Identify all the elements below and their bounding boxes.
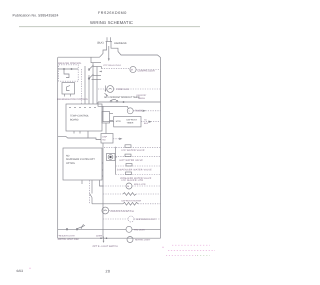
svg-text:REFRIG LIGHT: REFRIG LIGHT (135, 239, 151, 242)
junction dot defrost (123, 101, 125, 103)
defrost timer switch line (98, 101, 161, 103)
dispenser light lamp (128, 216, 134, 222)
defrost feed arrow glyph (105, 93, 108, 95)
compressor motor circle (130, 66, 136, 72)
ice maker motor circle (126, 183, 132, 189)
adaptive defrost control box (114, 117, 141, 127)
control board box (66, 104, 102, 131)
svg-text:DISP: DISP (102, 136, 107, 139)
line cord plug (106, 37, 112, 46)
wire left bus to aux switch (58, 136, 88, 138)
ground lead with arrow (108, 46, 110, 59)
condenser fan motor circle (107, 86, 114, 93)
freezer control dashed box (59, 65, 78, 81)
svg-text:DEFROST: DEFROST (127, 118, 138, 121)
note box (63, 148, 102, 180)
artifact pink dashes bottom right (29, 245, 215, 269)
ice maker row step (100, 180, 104, 186)
svg-text:FREEZER CONTROL: FREEZER CONTROL (58, 62, 82, 65)
svg-text:MTR: MTR (116, 120, 121, 123)
wire compressor to right bus (136, 69, 160, 71)
wire freezer light to right bus (132, 228, 161, 230)
relay contact (101, 67, 103, 69)
dashed harness wire (81, 69, 83, 104)
aux dispenser switch box (101, 134, 113, 144)
defrost heater zigzag (92, 203, 123, 205)
compressor run circuit (102, 68, 130, 70)
svg-text:SW: SW (102, 139, 105, 142)
svg-text:TIMER: TIMER (127, 122, 134, 125)
svg-text:FREEZER LIGHT: FREEZER LIGHT (58, 235, 76, 238)
svg-text:BUS: BUS (144, 122, 149, 125)
wire through freezer control (58, 68, 78, 70)
svg-text:ICE MAKER HTR: ICE MAKER HTR (122, 179, 144, 182)
svg-text:WIRING SCHEMATIC: WIRING SCHEMATIC (90, 20, 133, 25)
stub below note box (81, 180, 83, 184)
ground arrow below rail (103, 237, 105, 242)
condenser fan circuit (98, 88, 107, 90)
water valve row 1 (104, 146, 161, 148)
svg-text:OPTION: OPTION (66, 162, 75, 165)
freezer door switch (88, 57, 101, 70)
rail junction dots (100, 237, 102, 239)
svg-text:MOLD HTR: MOLD HTR (134, 183, 146, 186)
svg-text:20: 20 (106, 270, 111, 274)
harness wire below note box (89, 180, 91, 204)
junction dot A (63, 68, 65, 70)
freezer light wire (58, 228, 126, 230)
freezer light lamp (126, 226, 132, 232)
bottom rail (58, 237, 161, 239)
defrost limit switch wire (91, 180, 93, 193)
timer motor feeder (98, 102, 128, 109)
svg-text:BOARD: BOARD (70, 118, 79, 121)
svg-text:DEFROST: DEFROST (137, 94, 148, 97)
wire evap fan (109, 210, 131, 212)
mullion heater zigzag (103, 193, 123, 195)
board pin labels row (69, 107, 96, 109)
water valve row 4 (116, 174, 161, 176)
header rule (19, 26, 200, 28)
svg-text:HOT WATER VALVE: HOT WATER VALVE (120, 159, 144, 162)
svg-text:REFRIGERATOR CONTROL: REFRIGERATOR CONTROL (57, 98, 89, 101)
center vertical feeder (102, 143, 104, 238)
relay wire arrowhead (99, 71, 102, 73)
svg-text:6/03: 6/03 (17, 269, 24, 273)
water valve row 3 (116, 165, 161, 167)
svg-text:ADJ. DEFROST: ADJ. DEFROST (104, 96, 121, 99)
water valve row 2 (116, 156, 161, 158)
wire right drop from plug to right bus (111, 46, 161, 58)
evap fan motor circle (102, 207, 109, 214)
tab stub lower (110, 120, 114, 122)
svg-text:NO: NO (66, 154, 70, 157)
svg-text:THERM: THERM (138, 97, 146, 100)
svg-text:COND FAN: COND FAN (116, 88, 129, 91)
board bottom terminal 1 (73, 131, 75, 134)
defrost timer contacts (110, 99, 118, 102)
arrow timer to bus (133, 110, 160, 112)
tab stub upper (110, 113, 114, 115)
wire left drop from plug to left bus (58, 46, 107, 57)
svg-text:ICE WATER VALVE: ICE WATER VALVE (122, 149, 145, 152)
ADC output arrow to bus (141, 121, 161, 123)
svg-text:HARNESS: HARNESS (114, 42, 127, 45)
refrigerator light on bottom rail (127, 237, 133, 243)
svg-text:T: T (128, 110, 130, 113)
svg-text:FRZ LIGHT: FRZ LIGHT (134, 228, 146, 231)
wire to dispenser light (103, 218, 128, 220)
svg-text:M: M (127, 185, 129, 188)
valve feeder vertical (115, 147, 117, 175)
refrigerator control terminals (64, 94, 66, 97)
defrost timer motor circle (127, 108, 133, 114)
svg-text:FRS26KD6M0: FRS26KD6M0 (98, 11, 127, 15)
wire cond fan to right bus (114, 88, 161, 90)
board connector tab (102, 112, 110, 124)
arrow from aux box (113, 138, 120, 140)
svg-text:(BLK): (BLK) (97, 42, 104, 45)
wire to ice maker (103, 185, 126, 187)
svg-text:DISPENSER LIGHT: DISPENSER LIGHT (136, 218, 156, 221)
note box stubs (102, 162, 103, 164)
svg-text:OPT B - LIGHT SWITCH: OPT B - LIGHT SWITCH (93, 245, 119, 248)
svg-text:(DISP): (DISP) (96, 234, 103, 237)
svg-text:TEMP CONTROL: TEMP CONTROL (70, 115, 90, 118)
svg-text:TO: TO (144, 119, 147, 122)
freezer light switch (66, 224, 85, 230)
wire board to aux switch (88, 131, 101, 140)
right bus (160, 58, 162, 239)
ADC feeder (103, 106, 114, 121)
door switch feeders down to board (85, 63, 97, 104)
board bottom terminal 2 (79, 131, 81, 134)
wire dispenser light to right bus (134, 218, 160, 220)
solenoid box with valve (107, 154, 116, 161)
svg-text:DISPENSER SYSTEM OPT: DISPENSER SYSTEM OPT (66, 158, 95, 161)
ground lead arrowhead (108, 58, 110, 61)
left bus (57, 57, 59, 238)
refrigerator control glyph (67, 86, 71, 91)
svg-text:M: M (131, 69, 133, 72)
svg-text:PTC RELAY OVLD: PTC RELAY OVLD (104, 64, 122, 67)
freezer control thermostat glyph (64, 69, 69, 78)
svg-text:SWITCH-LIGHT ASM: SWITCH-LIGHT ASM (58, 238, 79, 241)
svg-text:DISPENSER WATER VALVE: DISPENSER WATER VALVE (117, 168, 152, 171)
junction dot B (71, 68, 73, 70)
condenser fan feed arrow (105, 86, 107, 91)
wire ice maker to right bus (132, 185, 160, 187)
svg-text:Publication No. 5995435824: Publication No. 5995435824 (13, 14, 59, 18)
refrigerator door switch (88, 74, 101, 80)
svg-text:COMPRESSOR: COMPRESSOR (138, 69, 156, 72)
refrigerator control box (62, 83, 75, 95)
tab to aux box wire (105, 123, 107, 134)
